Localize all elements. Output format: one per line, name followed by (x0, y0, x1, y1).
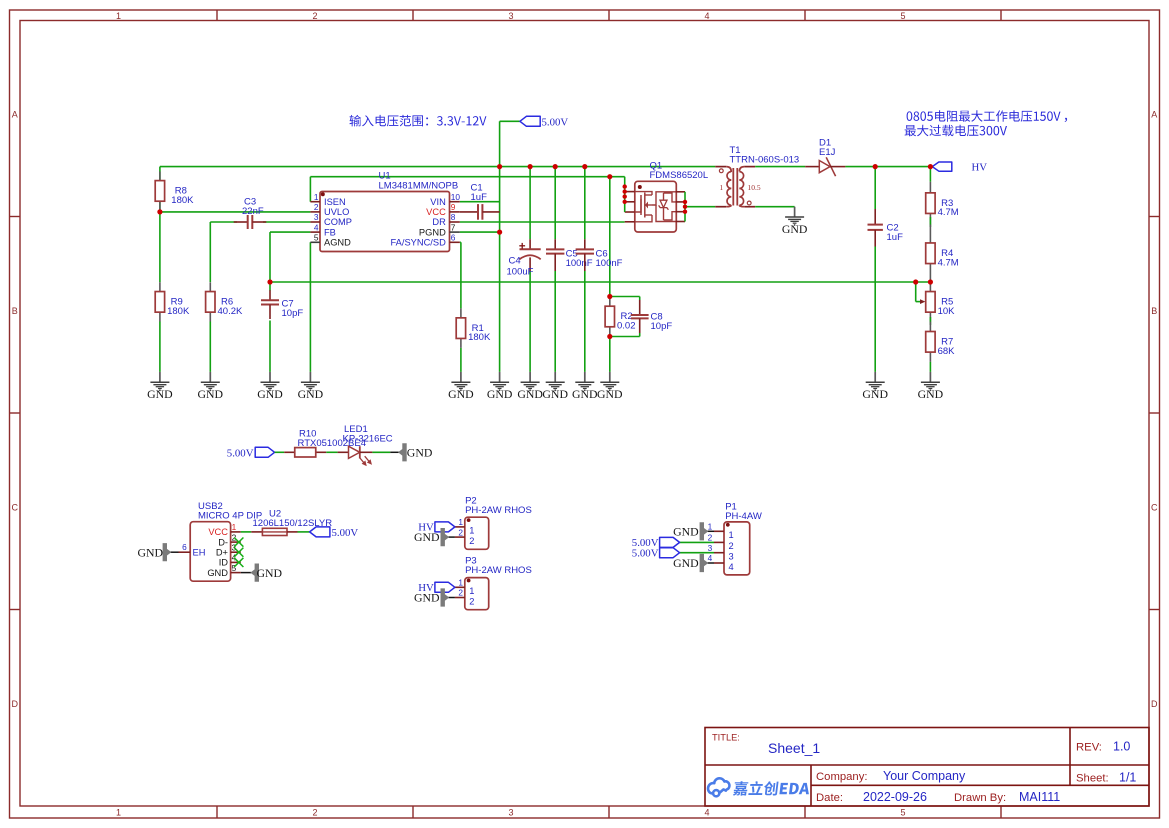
svg-text:GND: GND (673, 524, 699, 538)
R5 wiper arrow (915, 282, 917, 302)
svg-text:0.02: 0.02 (617, 321, 636, 332)
svg-text:4: 4 (704, 808, 709, 818)
svg-text:GND: GND (298, 387, 324, 401)
net flag 5.00V P1 pin3 (680, 552, 714, 554)
svg-text:1uF: 1uF (887, 232, 904, 243)
svg-text:5: 5 (900, 808, 905, 818)
ground GND C7 (269, 372, 271, 382)
U1 right pin stubs (450, 201, 460, 203)
svg-text:GND: GND (862, 387, 888, 401)
svg-text:5.00V: 5.00V (227, 447, 254, 459)
capacitor C1 (460, 211, 478, 213)
svg-text:PH-2AW RHOS: PH-2AW RHOS (465, 505, 532, 516)
resistor R2 (609, 297, 611, 307)
svg-text:GND: GND (414, 591, 440, 605)
net flag 5.00V P1 pin2 (680, 541, 714, 543)
wire: PGND vertical to ground (499, 167, 501, 372)
svg-text:GND: GND (782, 222, 808, 236)
svg-text:7: 7 (451, 222, 456, 232)
wire: ISEN net horizontal (310, 176, 624, 178)
svg-text:3: 3 (508, 11, 513, 21)
transformer T1 TTRN-060S-013 (715, 167, 755, 207)
svg-text:Sheet_1: Sheet_1 (768, 740, 820, 756)
annotation: 0805 resistor max voltage text line2 (905, 125, 1007, 137)
wire: FA/SYNC/SD pin 6 down to R1 (460, 241, 461, 243)
svg-text:REV:: REV: (1076, 742, 1102, 754)
logo EasyEDA text (733, 781, 811, 796)
svg-text:2: 2 (232, 532, 237, 542)
resistor R3 (929, 182, 931, 193)
wire: 5.00V flag to VIN rail vertical (499, 121, 501, 166)
svg-text:GND: GND (517, 387, 543, 401)
wire: VIN pin 10 to rail (460, 201, 500, 203)
svg-text:UVLO: UVLO (324, 207, 349, 217)
svg-text:1/1: 1/1 (1119, 771, 1136, 785)
wire: Q1 drain bus (684, 192, 686, 222)
junction dots Q1 source (623, 184, 627, 188)
capacitor C8 (639, 300, 641, 315)
svg-text:C: C (11, 503, 18, 513)
svg-text:4: 4 (708, 553, 713, 563)
net flag 5.00V top (520, 116, 540, 126)
svg-text:1: 1 (708, 522, 713, 532)
svg-text:AGND: AGND (324, 238, 351, 248)
svg-text:KP-3216EC: KP-3216EC (343, 434, 393, 445)
wire: UVLO net R8/R9 junction to U1 pin 2 (160, 211, 311, 213)
ground GND R7 (929, 372, 931, 382)
svg-text:40.2K: 40.2K (218, 306, 243, 317)
svg-text:1.0: 1.0 (1113, 740, 1130, 754)
wire: segment R3-R4 (929, 217, 931, 227)
resistor R6 (209, 282, 211, 291)
ground GND transformer (794, 207, 796, 217)
junction dots HV rail (873, 164, 878, 169)
svg-text:GND: GND (147, 387, 173, 401)
svg-text:D: D (11, 699, 18, 709)
svg-text:LM3481MM/NOPB: LM3481MM/NOPB (379, 180, 459, 191)
svg-text:22nF: 22nF (242, 206, 264, 217)
USB2 right pin stubs (231, 531, 241, 533)
svg-text:180K: 180K (468, 332, 491, 343)
capacitor C3 (234, 221, 248, 223)
svg-text:ISEN: ISEN (324, 197, 346, 207)
wire: C4 branch (529, 167, 531, 240)
wire: FB pin to C7 junction (270, 231, 310, 233)
svg-text:1: 1 (458, 578, 463, 588)
svg-text:68K: 68K (938, 346, 956, 357)
svg-text:D-: D- (218, 537, 228, 547)
ground GND C4 (529, 372, 531, 382)
svg-text:GND: GND (673, 556, 699, 570)
svg-text:5.00V: 5.00V (542, 117, 569, 129)
wire: secondary top to D1 (755, 166, 805, 168)
svg-text:4: 4 (704, 11, 709, 21)
svg-text:C4: C4 (509, 256, 521, 267)
svg-text:PGND: PGND (419, 227, 446, 237)
wire: USB VCC to fuse (241, 531, 252, 533)
wire: R2 sense branch vertical (609, 177, 611, 297)
svg-text:5: 5 (314, 233, 319, 243)
ground GND C6 (584, 372, 586, 382)
wire: R10 to LED (326, 451, 337, 453)
wire: C5 branch (554, 167, 556, 240)
junction dots on 5V rail (497, 164, 502, 169)
svg-text:180K: 180K (171, 195, 194, 206)
wire: R3 top (929, 167, 931, 182)
svg-text:3: 3 (708, 543, 713, 553)
net flag HV P3 (435, 582, 455, 592)
ground GND R9 (159, 372, 161, 382)
svg-text:A: A (12, 110, 18, 120)
svg-text:3: 3 (232, 542, 237, 552)
ground GND R1 (460, 372, 462, 382)
svg-text:6: 6 (451, 233, 456, 243)
resistor R8 (159, 172, 161, 181)
title block grid (705, 728, 1149, 807)
svg-text:GND: GND (207, 568, 228, 578)
ground GND AGND (309, 372, 311, 382)
connector P1 PH-4AW body (724, 522, 750, 575)
wire: USB GND pin to flag (241, 572, 251, 574)
wire: R6 lower lead to ground (209, 322, 211, 372)
svg-text:1: 1 (116, 11, 121, 21)
svg-text:GND: GND (407, 446, 433, 460)
resistor R4 (929, 225, 931, 243)
annotation: input voltage range text (350, 115, 487, 127)
svg-text:3: 3 (508, 808, 513, 818)
wire: PGND pin 7 wire (460, 231, 500, 233)
svg-text:VCC: VCC (426, 207, 446, 217)
capacitor C4 polarized (529, 239, 531, 249)
wire: D1 to HV node (845, 166, 932, 168)
svg-text:E1J: E1J (819, 147, 836, 158)
connector P2 PH-2AW body (465, 517, 489, 549)
svg-text:2: 2 (312, 11, 317, 21)
junction dots R2 C8 (607, 294, 612, 299)
ground GND R2 (609, 372, 611, 382)
wire: AGND pin down to ground (309, 242, 311, 372)
junction dot PGND (497, 230, 502, 235)
svg-text:6: 6 (182, 542, 187, 552)
wire: Q1 source pins to ISEN (624, 177, 626, 212)
resistor R1 (460, 308, 462, 317)
net flag 5.00V USB (310, 527, 330, 537)
capacitor C2 (874, 209, 876, 225)
ground GND PGND (499, 372, 501, 382)
svg-text:1: 1 (458, 517, 463, 527)
wire: flag to R10 (275, 451, 285, 453)
resistor R5 potentiometer (929, 282, 931, 292)
wire: C2 branch (874, 167, 876, 209)
svg-text:C: C (1151, 503, 1158, 513)
ground flag GND LED (390, 451, 399, 453)
svg-text:D+: D+ (216, 547, 228, 557)
svg-text:TITLE:: TITLE: (712, 732, 740, 742)
capacitor C7 (269, 290, 271, 300)
svg-text:Your Company: Your Company (883, 769, 966, 783)
svg-text:VCC: VCC (208, 527, 228, 537)
wire: R1 bottom to ground (460, 348, 462, 372)
ground flag GND P2 (448, 536, 455, 538)
resistor R9 (159, 282, 161, 291)
ground flag GND P1 pin1 (708, 530, 715, 532)
svg-text:GND: GND (414, 530, 440, 544)
wire: 5V top rail (160, 166, 715, 168)
ground flag GND P1 pin4 (708, 562, 715, 564)
capacitor C6 (584, 239, 586, 249)
svg-text:5.00V: 5.00V (332, 527, 359, 539)
svg-text:10.5: 10.5 (748, 183, 761, 192)
net flag HV (932, 162, 952, 171)
svg-text:2: 2 (458, 527, 463, 537)
wire: C8 parallel hookup bottom (639, 333, 641, 337)
wire: C8 parallel hookup top (610, 296, 640, 298)
wire: secondary bottom to ground (755, 206, 794, 208)
svg-text:B: B (12, 306, 18, 316)
wire: R9 branch vertical (159, 212, 161, 282)
wire: COMP net to C3 (210, 221, 237, 223)
svg-text:B: B (1151, 306, 1157, 316)
svg-text:GND: GND (257, 566, 283, 580)
svg-text:GND: GND (448, 387, 474, 401)
USB2 left pin 6 stub (179, 551, 191, 553)
svg-text:PH-2AW RHOS: PH-2AW RHOS (465, 565, 532, 576)
svg-text:2: 2 (314, 202, 319, 212)
P3 pin stubs (455, 586, 465, 588)
svg-text:5.00V: 5.00V (632, 548, 659, 560)
junction dot ISEN R2 (607, 174, 612, 179)
wire: ISEN vertical to U1 pin 1 (309, 177, 311, 202)
svg-text:PH-4AW: PH-4AW (725, 511, 762, 522)
svg-text:FB: FB (324, 227, 336, 237)
wire: R7 to ground (929, 362, 931, 372)
svg-text:2: 2 (469, 536, 474, 546)
wire: R8 branch vertical (159, 167, 161, 183)
svg-text:GND: GND (572, 387, 598, 401)
svg-text:9: 9 (451, 202, 456, 212)
svg-text:Drawn By:: Drawn By: (954, 792, 1006, 804)
ground GND R6 (209, 372, 211, 382)
svg-text:VIN: VIN (430, 197, 446, 207)
P2 pin stubs (455, 526, 465, 528)
svg-text:GND: GND (597, 387, 623, 401)
svg-text:1: 1 (469, 586, 474, 596)
svg-text:10pF: 10pF (282, 308, 304, 319)
USB2 no-connect marks (234, 538, 243, 547)
annotation: 0805 resistor max voltage text line1 (907, 110, 1061, 121)
svg-text:10pF: 10pF (651, 321, 673, 332)
diode D1 E1J (805, 166, 819, 168)
ground flag GND USB shield (171, 551, 179, 553)
transistor Q1 FDMS86520L (625, 181, 685, 232)
svg-text:1: 1 (314, 192, 319, 202)
logo EasyEDA cloud (708, 778, 729, 796)
svg-text:3: 3 (314, 212, 319, 222)
svg-text:GND: GND (542, 387, 568, 401)
svg-text:1uF: 1uF (471, 192, 488, 203)
wire: Q1 drain to transformer (685, 206, 715, 208)
svg-text:COMP: COMP (324, 217, 352, 227)
svg-text:A: A (1151, 110, 1157, 120)
svg-text:MAI111: MAI111 (1019, 790, 1060, 804)
resistor R10 (284, 451, 295, 453)
fuse U2 1206L150/12SLYR (251, 531, 262, 533)
svg-text:FA/SYNC/SD: FA/SYNC/SD (391, 238, 447, 248)
LED LED1 (338, 451, 349, 453)
ground GND C5 (554, 372, 556, 382)
svg-text:8: 8 (451, 212, 456, 222)
wire: C7 branch (269, 282, 271, 291)
wire: FB feedback rail (270, 281, 930, 283)
connector P3 PH-2AW body (465, 578, 489, 610)
junction dot R8 R9 UVLO (157, 209, 162, 214)
wire: DR pin 8 to Q1 gate (460, 221, 625, 223)
svg-text:4.7M: 4.7M (938, 257, 959, 268)
svg-text:1: 1 (729, 530, 734, 540)
wire: segment R5-R7 (929, 317, 931, 325)
resistor R7 (929, 322, 931, 332)
svg-text:GND: GND (257, 387, 283, 401)
svg-text:1: 1 (469, 526, 474, 536)
svg-text:4: 4 (729, 562, 734, 572)
svg-text:2: 2 (469, 596, 474, 606)
ground flag GND P3 (448, 597, 455, 599)
svg-text:2: 2 (458, 588, 463, 598)
svg-text:EH: EH (193, 547, 206, 557)
svg-text:2: 2 (729, 541, 734, 551)
svg-text:3: 3 (729, 552, 734, 562)
wire: C6 branch (584, 167, 586, 240)
svg-text:10: 10 (451, 192, 461, 202)
op-amp U1 LM3481MM/NOPB body (320, 192, 450, 252)
connector USB2 MICRO 4P DIP body (190, 522, 230, 582)
svg-text:100uF: 100uF (507, 266, 534, 277)
svg-text:GND: GND (198, 387, 224, 401)
svg-text:TTRN-060S-013: TTRN-060S-013 (730, 154, 800, 165)
svg-text:2022-09-26: 2022-09-26 (863, 790, 927, 804)
svg-text:FDMS86520L: FDMS86520L (650, 170, 709, 181)
wire: R2 bottom to ground (609, 337, 611, 372)
junction dots Q1 drain (683, 200, 687, 204)
net flag HV P2 (435, 522, 455, 532)
svg-text:5: 5 (900, 11, 905, 21)
svg-text:Sheet:: Sheet: (1076, 773, 1109, 785)
P1 pin stubs (714, 530, 724, 532)
svg-text:Date:: Date: (816, 792, 843, 804)
svg-text:GND: GND (487, 387, 513, 401)
svg-text:1: 1 (232, 522, 237, 532)
svg-text:DR: DR (432, 217, 446, 227)
svg-text:10K: 10K (938, 306, 956, 317)
junction dots FB divider (913, 279, 918, 284)
ground GND C2 (874, 372, 876, 382)
svg-text:GND: GND (137, 546, 163, 560)
wire: C3 left elbow down to R6 (209, 222, 211, 282)
svg-text:1: 1 (720, 183, 724, 192)
svg-text:2: 2 (708, 533, 713, 543)
wire: fuse to 5V flag (298, 531, 310, 533)
svg-text:GND: GND (918, 387, 944, 401)
capacitor C5 (554, 239, 556, 249)
svg-text:2: 2 (312, 808, 317, 818)
svg-text:Company:: Company: (816, 771, 868, 783)
svg-text:1: 1 (116, 808, 121, 818)
svg-text:100nF: 100nF (596, 258, 623, 269)
net flag 5.00V LED supply (255, 447, 274, 457)
svg-text:HV: HV (972, 162, 988, 174)
svg-text:4: 4 (314, 222, 319, 232)
svg-text:4.7M: 4.7M (938, 207, 959, 218)
U1 left pin stubs (310, 201, 320, 203)
wire: LED to GND (372, 451, 390, 453)
svg-text:100nF: 100nF (566, 258, 593, 269)
svg-text:D: D (1151, 699, 1158, 709)
svg-text:ID: ID (219, 558, 229, 568)
junction dot C7 FB (267, 279, 272, 284)
svg-text:180K: 180K (167, 306, 190, 317)
